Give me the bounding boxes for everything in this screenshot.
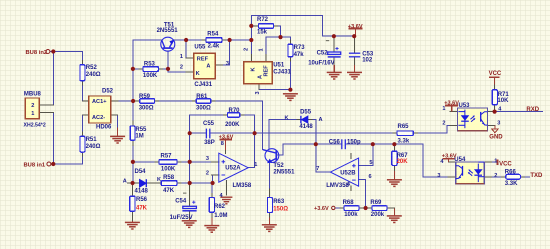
svg-text:3.3k: 3.3k: [398, 139, 410, 145]
svg-text:R66: R66: [505, 169, 517, 175]
svg-text:2.4k: 2.4k: [208, 43, 220, 49]
svg-text:VCC: VCC: [489, 71, 502, 77]
svg-text:15k: 15k: [257, 30, 268, 36]
svg-text:U55: U55: [194, 44, 206, 50]
svg-text:A: A: [123, 178, 127, 184]
svg-text:3: 3: [226, 61, 229, 67]
svg-text:2: 2: [442, 121, 445, 127]
svg-text:4148: 4148: [135, 189, 149, 195]
svg-text:200K: 200K: [225, 122, 240, 128]
svg-text:47K: 47K: [136, 205, 148, 211]
svg-text:D52: D52: [102, 89, 114, 95]
svg-text:HD06: HD06: [96, 125, 112, 131]
svg-text:LM358: LM358: [233, 183, 252, 189]
svg-text:2: 2: [180, 65, 183, 71]
svg-text:1: 1: [180, 54, 183, 60]
svg-text:3.3K: 3.3K: [505, 181, 518, 187]
svg-text:T52: T52: [273, 163, 284, 169]
svg-text:R51: R51: [86, 137, 98, 143]
svg-text:1: 1: [254, 162, 257, 168]
svg-text:U53: U53: [459, 103, 471, 109]
svg-text:K: K: [285, 115, 289, 121]
svg-text:1.0M: 1.0M: [214, 213, 227, 219]
svg-text:R53: R53: [144, 61, 156, 67]
svg-text:R54: R54: [207, 31, 219, 37]
svg-text:K: K: [157, 177, 161, 183]
svg-text:CJ431: CJ431: [194, 82, 212, 88]
svg-text:47K: 47K: [163, 188, 175, 194]
svg-text:U51: U51: [273, 63, 285, 69]
svg-text:1: 1: [31, 111, 34, 117]
svg-text:R68: R68: [343, 200, 355, 206]
svg-text:+3.6V: +3.6V: [219, 134, 234, 140]
svg-text:+3.6V: +3.6V: [442, 154, 457, 160]
svg-text:A: A: [206, 64, 210, 70]
svg-text:3: 3: [497, 120, 500, 126]
svg-text:K: K: [196, 71, 200, 77]
svg-text:BU8 in2: BU8 in2: [26, 50, 48, 56]
svg-text:1: 1: [494, 159, 497, 165]
svg-text:AC1+: AC1+: [92, 99, 107, 105]
svg-text:K: K: [250, 67, 256, 71]
svg-text:200k: 200k: [371, 212, 385, 218]
svg-text:BU8 in1: BU8 in1: [24, 163, 46, 169]
svg-text:1: 1: [259, 48, 265, 51]
svg-text:2: 2: [494, 173, 497, 179]
svg-text:R57: R57: [161, 153, 173, 159]
svg-text:20K: 20K: [397, 159, 409, 165]
svg-text:7: 7: [316, 166, 319, 172]
svg-text:RXD: RXD: [526, 107, 539, 113]
svg-text:TXD: TXD: [530, 173, 543, 179]
svg-text:R58: R58: [163, 175, 175, 181]
svg-text:R70: R70: [229, 108, 241, 114]
svg-text:REF: REF: [264, 65, 270, 77]
svg-text:10K: 10K: [497, 98, 509, 104]
svg-text:4148: 4148: [299, 124, 313, 130]
svg-text:10uF/16V: 10uF/16V: [308, 60, 334, 66]
svg-text:C54: C54: [175, 198, 187, 204]
svg-text:102: 102: [362, 58, 373, 64]
svg-text:CJ431: CJ431: [273, 69, 291, 75]
svg-text:C52: C52: [317, 50, 329, 56]
svg-text:R61: R61: [196, 94, 208, 100]
svg-text:R56: R56: [136, 197, 148, 203]
svg-text:A: A: [319, 117, 323, 123]
svg-text:3: 3: [255, 91, 261, 94]
svg-text:150Ω: 150Ω: [273, 207, 288, 213]
svg-text:+3.6V: +3.6V: [348, 24, 363, 30]
svg-text:100K: 100K: [143, 73, 158, 79]
svg-text:C53: C53: [362, 51, 374, 57]
svg-text:R62: R62: [214, 204, 226, 210]
svg-text:AC2-: AC2-: [92, 115, 105, 121]
svg-text:R72: R72: [257, 17, 269, 23]
svg-text:C56: C56: [329, 140, 341, 146]
svg-text:D54: D54: [135, 169, 147, 175]
svg-text:MBU8: MBU8: [24, 91, 42, 97]
svg-text:R52: R52: [86, 65, 98, 71]
svg-text:2N5551: 2N5551: [273, 169, 295, 175]
svg-text:R55: R55: [135, 127, 147, 133]
svg-text:VCC: VCC: [499, 161, 512, 167]
svg-text:1: 1: [442, 106, 445, 112]
svg-text:3: 3: [206, 156, 209, 162]
svg-text:REF: REF: [197, 56, 209, 62]
svg-text:R59: R59: [139, 94, 151, 100]
svg-text:150p: 150p: [347, 140, 361, 146]
svg-text:38P: 38P: [204, 140, 215, 146]
svg-text:XH2.54*2: XH2.54*2: [24, 122, 46, 128]
svg-text:R63: R63: [273, 199, 285, 205]
svg-text:6: 6: [369, 174, 372, 180]
svg-text:5: 5: [369, 160, 372, 166]
svg-text:300Ω: 300Ω: [139, 106, 154, 112]
svg-text:2N5551: 2N5551: [157, 28, 179, 34]
svg-text:100K: 100K: [161, 166, 176, 172]
svg-text:47k: 47k: [294, 52, 305, 58]
svg-text:D55: D55: [300, 109, 312, 115]
svg-text:R69: R69: [370, 200, 382, 206]
svg-text:2: 2: [244, 48, 250, 51]
svg-text:C55: C55: [203, 121, 215, 127]
svg-text:R71: R71: [498, 92, 510, 98]
svg-text:1M: 1M: [135, 134, 143, 140]
svg-text:2: 2: [31, 103, 34, 109]
svg-text:240Ω: 240Ω: [86, 144, 101, 150]
svg-text:300Ω: 300Ω: [196, 106, 211, 112]
svg-text:100k: 100k: [344, 212, 358, 218]
svg-text:+3.6V: +3.6V: [444, 100, 459, 106]
svg-text:U52B: U52B: [340, 171, 356, 177]
svg-text:8: 8: [221, 141, 224, 147]
svg-text:240Ω: 240Ω: [86, 72, 101, 78]
svg-text:3: 3: [437, 173, 440, 179]
svg-text:GND: GND: [489, 134, 503, 140]
svg-text:R65: R65: [398, 124, 410, 130]
svg-text:U52A: U52A: [225, 166, 241, 172]
svg-text:2: 2: [206, 170, 209, 176]
svg-text:1uF/25V: 1uF/25V: [170, 215, 193, 221]
svg-text:+3.6V: +3.6V: [314, 206, 329, 212]
svg-text:R73: R73: [294, 45, 306, 51]
